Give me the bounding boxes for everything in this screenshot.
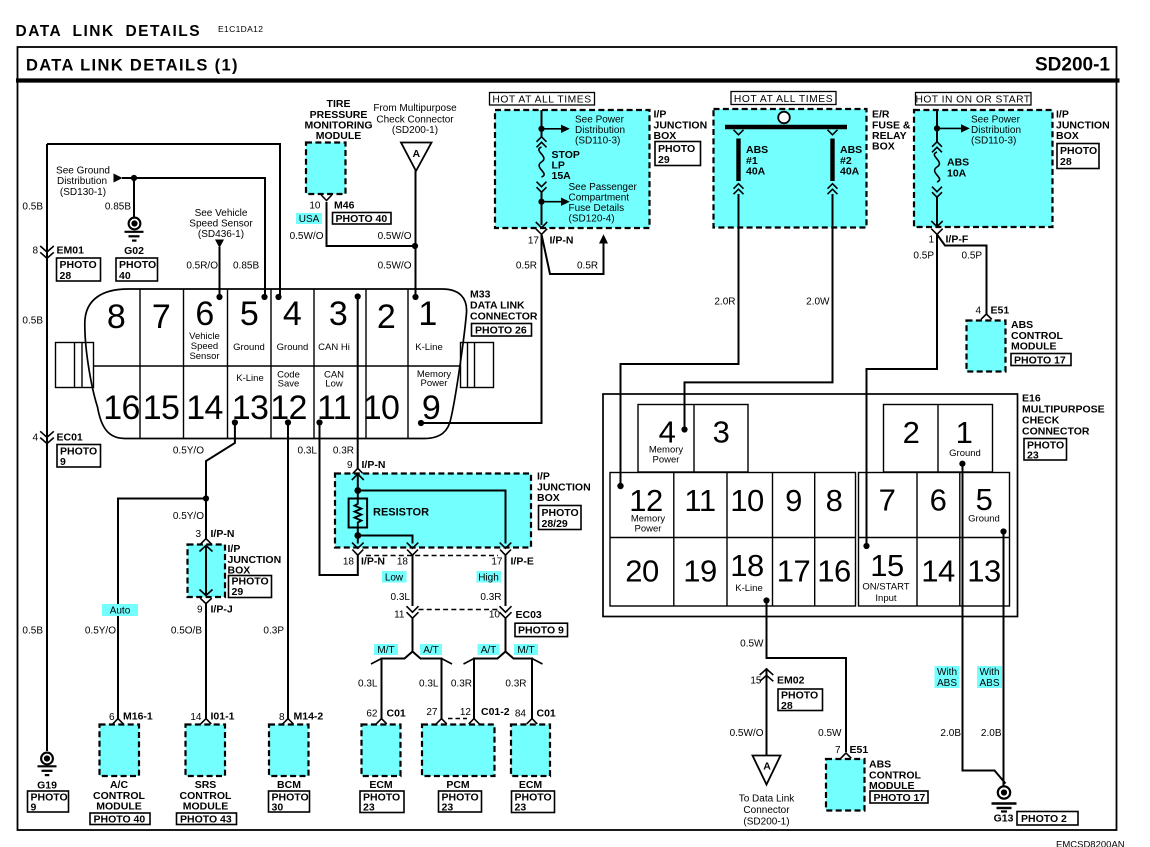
photo box PCM <box>439 791 482 814</box>
ground G02 <box>124 218 144 257</box>
svg-text:CONNECTOR: CONNECTOR <box>470 311 538 323</box>
svg-text:DATA LINK DETAILS (1): DATA LINK DETAILS (1) <box>26 57 239 75</box>
M33 top row pin labels <box>189 331 443 362</box>
svg-text:28: 28 <box>60 270 72 282</box>
M33 top pin nodes <box>216 294 222 300</box>
connector I/P-F 1 <box>931 229 942 235</box>
svg-text:Ground: Ground <box>968 514 1000 525</box>
wire ground pin5 2.0B <box>1003 532 1005 787</box>
photo box I/P JB 1 <box>655 142 701 167</box>
svg-text:Save: Save <box>278 379 300 390</box>
M33 label <box>470 289 538 323</box>
arrow see passenger compartment <box>542 201 562 203</box>
svg-text:1: 1 <box>928 235 934 246</box>
connector E51 pin7 <box>841 753 852 758</box>
svg-text:M16-1: M16-1 <box>123 711 153 723</box>
label E/R FUSE RELAY BOX <box>872 109 911 153</box>
svg-text:1: 1 <box>956 415 973 450</box>
wire 2.0W ABS#2 to E16 pin4 <box>685 194 833 430</box>
svg-text:4: 4 <box>975 306 981 317</box>
label With ABS 1 <box>935 666 960 689</box>
photo box I/P JB small <box>229 576 272 599</box>
wire K-line pin13 branch <box>206 423 235 539</box>
svg-text:62: 62 <box>366 709 378 720</box>
label See Power Distribution <box>575 115 625 147</box>
svg-text:0.5P: 0.5P <box>913 251 934 262</box>
triangle A to data link <box>753 756 781 785</box>
svg-text:G02: G02 <box>124 245 144 257</box>
svg-text:USA: USA <box>299 214 320 225</box>
svg-text:ABS: ABS <box>937 678 957 689</box>
svg-text:I01-1: I01-1 <box>211 711 235 723</box>
label To Data Link Connector <box>739 794 796 828</box>
svg-text:10: 10 <box>489 610 501 621</box>
svg-text:11: 11 <box>684 483 715 518</box>
svg-text:PHOTO 2: PHOTO 2 <box>1021 813 1067 825</box>
photo box E16 <box>1024 439 1067 462</box>
svg-text:Auto: Auto <box>110 606 131 617</box>
svg-text:2.0B: 2.0B <box>940 728 961 739</box>
svg-text:Compartment: Compartment <box>569 193 630 204</box>
svg-text:14: 14 <box>190 712 202 723</box>
svg-text:15: 15 <box>750 676 762 687</box>
svg-text:7: 7 <box>152 298 170 336</box>
svg-text:23: 23 <box>442 802 454 814</box>
module box BCM <box>269 725 309 777</box>
svg-text:C01: C01 <box>387 708 406 720</box>
svg-text:PHOTO 17: PHOTO 17 <box>874 792 926 804</box>
svg-text:ECM: ECM <box>519 779 543 791</box>
connector I/P-N 3 <box>201 539 212 544</box>
module box tire pressure <box>306 143 346 195</box>
svg-text:EMCSD8200AN: EMCSD8200AN <box>1056 840 1125 847</box>
svg-text:2.0B: 2.0B <box>981 728 1002 739</box>
svg-text:See Ground: See Ground <box>56 166 110 177</box>
split CAN high A/T M/T <box>474 652 532 719</box>
svg-text:0.3L: 0.3L <box>419 679 439 690</box>
svg-text:M/T: M/T <box>377 645 394 656</box>
connector C01-2 pins 27 12 <box>436 719 479 724</box>
svg-text:HOT IN ON OR START: HOT IN ON OR START <box>915 95 1030 106</box>
svg-text:ON/START: ON/START <box>862 582 909 593</box>
photo box ECM 2 <box>512 791 555 814</box>
label I/P JUNCTION BOX 1 <box>654 109 708 143</box>
svg-text:Power: Power <box>635 524 662 535</box>
svg-text:Power: Power <box>421 378 448 389</box>
svg-text:0.5Y/O: 0.5Y/O <box>85 626 116 637</box>
svg-text:10: 10 <box>730 483 764 518</box>
svg-text:28: 28 <box>1060 156 1072 168</box>
module box ECM 2 <box>511 725 550 777</box>
svg-text:I/P-E: I/P-E <box>511 556 534 568</box>
svg-text:Check Connector: Check Connector <box>376 115 454 126</box>
connector EM02 pin15 <box>760 669 774 681</box>
svg-text:6: 6 <box>930 483 947 518</box>
svg-text:9: 9 <box>347 460 353 471</box>
svg-text:0.3P: 0.3P <box>263 626 284 637</box>
photo box EM02 <box>778 689 823 712</box>
svg-text:23: 23 <box>363 802 375 814</box>
wire CAN low pin11 <box>320 423 358 576</box>
E16 label <box>1022 393 1105 438</box>
fuse ABS#1 40A <box>734 130 769 194</box>
svg-text:Input: Input <box>875 593 896 604</box>
connector M14-2 pin8 <box>283 719 294 724</box>
M33 grid <box>94 365 461 367</box>
svg-text:(SD110-3): (SD110-3) <box>971 136 1016 147</box>
wire 0.5P left to E16 pin15 <box>867 234 938 546</box>
svg-text:With: With <box>937 667 957 678</box>
svg-text:DATA LINK DETAILS: DATA LINK DETAILS <box>16 23 202 40</box>
svg-text:PHOTO 17: PHOTO 17 <box>1014 355 1066 367</box>
wire resistor bottom <box>357 528 359 544</box>
label See Passenger Compartment Fuse Details <box>569 182 638 225</box>
svg-text:3: 3 <box>713 415 730 450</box>
photo box E51 top <box>1011 354 1071 367</box>
photo box SRS <box>177 813 237 826</box>
svg-text:0.3R: 0.3R <box>480 592 501 603</box>
photo box I/P JB right <box>1057 144 1099 169</box>
resistor R <box>349 499 429 528</box>
svg-text:BOX: BOX <box>872 141 895 153</box>
svg-text:19: 19 <box>683 554 716 589</box>
node ground distribution junction <box>131 175 137 181</box>
svg-text:(SD200-1): (SD200-1) <box>392 125 438 136</box>
photo box ECM 1 <box>360 791 404 814</box>
module box ABS control module top <box>967 321 1006 372</box>
wire K-line pin18 down <box>767 601 847 753</box>
box I/P junction box ABS fuse <box>914 110 1053 227</box>
label With ABS 2 <box>977 666 1002 689</box>
svg-text:0.5R: 0.5R <box>516 261 537 272</box>
svg-text:I/P-N: I/P-N <box>361 556 385 568</box>
label I/P JUNCTION BOX resistor <box>537 471 591 505</box>
svg-text:E1C1DA12: E1C1DA12 <box>218 24 263 34</box>
svg-text:17: 17 <box>528 236 540 247</box>
svg-text:29: 29 <box>658 154 670 166</box>
svg-text:0.5R/O: 0.5R/O <box>186 261 218 272</box>
M33 pin numbers bottom row <box>103 389 440 427</box>
svg-text:C01: C01 <box>537 708 556 720</box>
svg-text:0.5Y/O: 0.5Y/O <box>173 511 204 522</box>
arrow up to passenger compartment <box>599 234 608 243</box>
arrow vehicle speed sensor <box>215 240 224 249</box>
E16 row2 numbers <box>625 548 1000 589</box>
dashed link connectors 18-17 <box>366 555 498 557</box>
wire G02 drop <box>133 178 135 218</box>
svg-text:ECM: ECM <box>369 779 393 791</box>
svg-text:0.3R: 0.3R <box>451 679 472 690</box>
connector E51 pin4 <box>981 314 992 319</box>
M33 bottom row pin labels <box>236 369 451 390</box>
relay circle <box>778 112 790 124</box>
svg-text:1: 1 <box>418 295 436 333</box>
wire 0.5P right to E51 <box>937 234 987 314</box>
wire 0.85B ground distribution <box>122 178 265 297</box>
svg-text:5: 5 <box>240 295 258 333</box>
svg-text:16: 16 <box>817 554 850 589</box>
arrow see power distribution right <box>937 127 961 129</box>
svg-text:8: 8 <box>107 298 125 336</box>
label See Power Distribution right <box>971 115 1021 147</box>
label HOT AT ALL TIMES 2 <box>731 92 836 106</box>
M33 right tab <box>461 343 494 388</box>
svg-text:See Passenger: See Passenger <box>569 182 638 193</box>
svg-text:23: 23 <box>515 802 527 814</box>
node see power distribution right <box>934 125 940 131</box>
wire resistor top to I/P-E 17 <box>358 491 506 544</box>
label M/T 1 <box>374 644 398 656</box>
svg-text:0.5O/B: 0.5O/B <box>171 626 202 637</box>
arrow see power distribution <box>542 128 562 130</box>
svg-text:Low: Low <box>385 573 404 584</box>
svg-text:(SD130-1): (SD130-1) <box>60 187 106 198</box>
label I/P JUNCTION BOX right <box>1056 109 1110 143</box>
E16 left grid <box>610 473 856 607</box>
connector M33 data link connector outline <box>56 289 494 439</box>
svg-text:To Data Link: To Data Link <box>739 794 796 805</box>
svg-text:K-Line: K-Line <box>735 583 762 594</box>
svg-text:C01-2: C01-2 <box>481 706 510 718</box>
svg-text:9: 9 <box>197 605 203 616</box>
box I/P junction box small <box>188 545 226 598</box>
chevron box exit right <box>931 221 942 227</box>
svg-text:Power: Power <box>653 455 680 466</box>
label ABS CONTROL MODULE bottom <box>869 759 921 793</box>
svg-text:(SD120-4): (SD120-4) <box>569 214 615 225</box>
connector M46 pin 10 <box>321 195 332 201</box>
wire resistor top node <box>357 474 359 499</box>
photo box G19 <box>28 791 69 814</box>
svg-text:Speed Sensor: Speed Sensor <box>189 219 253 230</box>
svg-text:8: 8 <box>32 246 38 257</box>
dashed link 11-10 <box>419 609 500 611</box>
svg-text:PHOTO 9: PHOTO 9 <box>518 625 564 637</box>
svg-text:28: 28 <box>781 700 793 712</box>
E16 top cells 4 3 <box>638 405 748 473</box>
svg-text:RESISTOR: RESISTOR <box>373 507 429 519</box>
svg-text:E51: E51 <box>850 744 869 756</box>
fuse STOP LP 15A <box>537 137 580 192</box>
svg-text:14: 14 <box>921 554 955 589</box>
svg-text:MODULE: MODULE <box>183 801 229 813</box>
wire 11 down <box>412 618 414 651</box>
photo box M46 <box>333 213 392 226</box>
ground G13 <box>992 786 1017 824</box>
svg-text:2.0W: 2.0W <box>806 297 830 308</box>
svg-text:Sensor: Sensor <box>189 351 219 362</box>
E16 right grid <box>859 473 1010 607</box>
svg-text:SD200-1: SD200-1 <box>1035 55 1110 76</box>
label HOT AT ALL TIMES 1 <box>490 93 595 106</box>
connector I/P-E 17 <box>500 550 511 556</box>
label A/C CONTROL MODULE <box>93 779 145 813</box>
page title <box>16 23 264 40</box>
svg-text:EM01: EM01 <box>57 245 85 257</box>
node K-line split <box>203 495 209 501</box>
wire code save pin12 to BCM <box>287 423 289 719</box>
svg-text:See Power: See Power <box>971 115 1021 126</box>
svg-text:Distribution: Distribution <box>57 176 107 187</box>
svg-text:0.5W: 0.5W <box>740 639 764 650</box>
svg-text:E51: E51 <box>991 305 1010 317</box>
svg-text:0.5R: 0.5R <box>577 261 598 272</box>
svg-text:See Vehicle: See Vehicle <box>195 208 248 219</box>
label See Vehicle Speed Sensor <box>189 208 253 240</box>
wire fuse to passenger compartment node <box>541 192 543 225</box>
svg-text:PHOTO 26: PHOTO 26 <box>475 325 527 337</box>
svg-text:PCM: PCM <box>446 779 470 791</box>
svg-text:8: 8 <box>279 712 285 723</box>
svg-text:I/P-J: I/P-J <box>211 604 233 616</box>
svg-text:0.5W/O: 0.5W/O <box>290 231 324 242</box>
label USA <box>296 213 322 225</box>
svg-text:0.5Y/O: 0.5Y/O <box>173 446 204 457</box>
connector I/P-J 9 <box>200 598 212 603</box>
wire 0.5R to M33 pin9 memory power <box>421 234 542 423</box>
svg-text:Ground: Ground <box>949 448 981 459</box>
box E/R fuse and relay box <box>714 109 867 228</box>
split CAN low M/T A/T <box>382 652 442 719</box>
wire CAN high 0.3R <box>505 555 507 606</box>
svg-text:M/T: M/T <box>517 645 534 656</box>
svg-text:6: 6 <box>109 712 115 723</box>
label M/T 2 <box>514 644 538 656</box>
wire EM02 down <box>766 668 768 755</box>
wire through junction box small <box>205 546 207 613</box>
svg-text:High: High <box>478 573 499 584</box>
node K-line junction <box>412 243 418 249</box>
chevrons resistor box exits <box>352 543 511 549</box>
E16 row2 labels <box>735 582 910 605</box>
svg-text:17: 17 <box>491 557 503 568</box>
svg-text:From Multipurpose: From Multipurpose <box>373 103 457 114</box>
wire ABS fuse feed <box>936 110 938 142</box>
svg-text:6: 6 <box>195 295 213 333</box>
module box ABS control module bottom <box>826 759 865 811</box>
split ticks CAN low <box>371 659 452 665</box>
label ABS CONTROL MODULE top <box>1011 319 1063 353</box>
svg-text:2.0R: 2.0R <box>714 297 735 308</box>
dashed link 27-12 <box>448 718 467 720</box>
E16 pin nodes <box>681 426 687 432</box>
connector EC01 <box>32 431 82 443</box>
wire 0.5B left vertical run <box>46 144 48 751</box>
chevron box exit <box>536 222 547 228</box>
module box SRS control module <box>186 725 226 777</box>
photo box resistor JB <box>539 506 582 531</box>
svg-text:0.5W/O: 0.5W/O <box>730 728 764 739</box>
label See Ground Distribution <box>56 166 110 199</box>
node resistor bottom <box>354 532 361 539</box>
svg-text:Low: Low <box>325 379 343 390</box>
svg-text:11: 11 <box>394 610 405 621</box>
svg-text:8: 8 <box>826 483 843 518</box>
svg-text:G13: G13 <box>994 813 1014 825</box>
svg-text:10: 10 <box>309 201 321 212</box>
svg-text:G19: G19 <box>37 780 57 792</box>
svg-text:9: 9 <box>422 389 440 427</box>
svg-text:27: 27 <box>426 707 438 718</box>
svg-text:7: 7 <box>835 745 841 756</box>
photo box G02 <box>116 258 158 282</box>
connector C01 pin62 <box>376 719 387 724</box>
svg-text:0.5B: 0.5B <box>22 626 43 637</box>
svg-text:12: 12 <box>460 707 472 718</box>
connector 10 chevrons EC03 <box>500 606 512 618</box>
arrow to ground distribution <box>114 174 123 183</box>
connector M16-1 pin6 <box>113 719 124 724</box>
module box PCM <box>422 725 495 777</box>
svg-text:HOT AT ALL TIMES: HOT AT ALL TIMES <box>492 95 591 106</box>
wire 0.5R return to fuse details <box>542 234 604 274</box>
wire 2.0R ABS#1 to E16 pin12 <box>621 194 739 485</box>
svg-text:40: 40 <box>119 270 131 282</box>
svg-text:(SD110-3): (SD110-3) <box>575 136 620 147</box>
wire fuse feed <box>541 110 543 137</box>
svg-text:I/P-N: I/P-N <box>211 528 235 540</box>
box I/P junction box resistor <box>335 474 531 548</box>
label HOT IN ON OR START <box>915 93 1031 106</box>
svg-text:CONNECTOR: CONNECTOR <box>1022 426 1090 438</box>
svg-text:(SD436-1): (SD436-1) <box>198 229 244 240</box>
svg-text:7: 7 <box>879 483 896 518</box>
svg-text:MODULE: MODULE <box>1011 341 1057 353</box>
svg-text:A: A <box>413 148 421 160</box>
wire M46 to K-line node <box>327 202 416 246</box>
svg-text:3: 3 <box>329 295 347 333</box>
svg-text:EM02: EM02 <box>777 675 805 687</box>
svg-text:Connector: Connector <box>743 805 790 816</box>
label High <box>477 571 502 584</box>
svg-text:10: 10 <box>363 389 399 427</box>
connector E16 outer box <box>603 394 1018 617</box>
wire top horizontal 0.5B <box>47 144 280 297</box>
svg-text:With: With <box>980 667 1000 678</box>
node resistor top <box>354 487 361 494</box>
svg-text:20: 20 <box>625 554 659 589</box>
svg-text:HOT AT ALL TIMES: HOT AT ALL TIMES <box>734 94 833 105</box>
svg-text:EC03: EC03 <box>516 609 542 621</box>
svg-text:BOX: BOX <box>1056 130 1079 142</box>
svg-text:BCM: BCM <box>277 779 301 791</box>
module tire pressure monitoring <box>304 98 372 142</box>
fuse ABS 10A <box>932 142 969 197</box>
svg-text:A/T: A/T <box>481 645 497 656</box>
photo box E51 bottom <box>870 791 928 804</box>
connector C01 pin84 <box>527 719 538 724</box>
M33 bottom pin nodes <box>232 419 238 425</box>
svg-text:9: 9 <box>60 456 66 468</box>
svg-text:29: 29 <box>232 586 244 598</box>
wire I/P-J to SRS module <box>205 604 207 719</box>
svg-text:0.3L: 0.3L <box>358 679 378 690</box>
svg-text:0.5B: 0.5B <box>22 202 43 213</box>
wire fuse to box bottom <box>936 197 938 227</box>
svg-text:BOX: BOX <box>654 130 677 142</box>
svg-text:4: 4 <box>283 295 301 333</box>
E16 row1 labels <box>631 514 1000 535</box>
svg-text:16: 16 <box>103 389 139 427</box>
svg-text:I/P-N: I/P-N <box>362 459 386 471</box>
svg-text:5: 5 <box>976 482 993 517</box>
svg-text:Distribution: Distribution <box>971 125 1021 136</box>
svg-text:0.3L: 0.3L <box>391 592 411 603</box>
module box ECM 1 <box>362 725 401 777</box>
svg-text:17: 17 <box>777 554 810 589</box>
svg-text:CAN Hi: CAN Hi <box>318 342 350 353</box>
wire CAN Hi pin3 through connector <box>357 297 359 469</box>
